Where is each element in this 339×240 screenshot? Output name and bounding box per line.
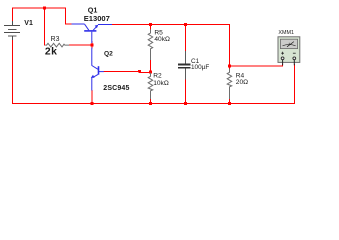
- svg-text:XMM1: XMM1: [278, 30, 294, 36]
- transistor Q2: [92, 48, 104, 91]
- node R2 / ground junction: [149, 102, 152, 105]
- svg-text:2k: 2k: [45, 47, 57, 58]
- pin XMM1 plus: [282, 60, 284, 66]
- wire R4 to XMM1 plus: [230, 65, 284, 67]
- node C1 / ground junction: [184, 102, 187, 105]
- wire R5 bottom: [150, 60, 152, 73]
- wire Q1 collector feed vertical: [65, 8, 67, 25]
- wire R2 bottom: [150, 99, 152, 105]
- node R4 / ground junction: [228, 102, 231, 105]
- svg-text:40kΩ: 40kΩ: [154, 36, 170, 43]
- svg-text:R3: R3: [51, 36, 60, 43]
- node Q1 base / R3 / Q2 collector junction: [91, 44, 94, 47]
- arrow Q1 emitter: [95, 25, 99, 29]
- pin XMM1 minus: [293, 60, 295, 66]
- wire Q2 emitter to ground red part: [91, 90, 93, 104]
- svg-text:V1: V1: [24, 20, 33, 27]
- wire R4 drop: [229, 25, 231, 70]
- node Q2 emitter / ground junction: [90, 102, 93, 105]
- transistor Q1: [72, 24, 113, 43]
- wire output rail: [112, 24, 230, 26]
- node output rail / R5 junction: [149, 23, 152, 26]
- wire top rail: [12, 7, 66, 9]
- node top rail / R3 junction: [43, 7, 46, 10]
- resistor R4: [227, 69, 232, 99]
- wire Q2 base to divider segment 2: [139, 71, 151, 73]
- wire battery bottom: [12, 40, 14, 105]
- wire C1 bottom: [185, 79, 187, 104]
- svg-text:100µF: 100µF: [191, 64, 209, 71]
- wire XMM1 plus drop: [282, 64, 284, 67]
- svg-text:10kΩ: 10kΩ: [153, 80, 169, 87]
- wire Q2 base to divider segment 1: [104, 70, 140, 72]
- node Q2 base wire kink: [138, 70, 141, 73]
- multimeter XMM1: [278, 37, 300, 63]
- resistor R5: [148, 29, 153, 60]
- svg-text:R2: R2: [153, 73, 162, 80]
- wire C1 top: [185, 25, 187, 52]
- wire Q1 base stub red: [91, 41, 93, 49]
- svg-text:2SC945: 2SC945: [103, 85, 129, 92]
- terminal post plus: [281, 57, 284, 60]
- wire battery top: [12, 8, 14, 22]
- wire ground rail: [12, 103, 295, 105]
- wire XMM1 minus to ground: [293, 64, 295, 104]
- terminal minus: [293, 52, 296, 54]
- resistor R3: [45, 43, 69, 47]
- battery V1: [4, 21, 20, 40]
- node R5 / R2 / Q2 base junction: [149, 71, 152, 74]
- wire R5 top stub: [150, 25, 152, 30]
- terminal post minus: [293, 57, 296, 60]
- svg-text:Q2: Q2: [104, 50, 113, 57]
- wire R4 bottom: [229, 99, 231, 105]
- node output rail / C1 junction: [184, 23, 187, 26]
- wire R3 drop: [44, 8, 46, 46]
- resistor R2: [148, 73, 153, 99]
- arrow Q2 emitter: [91, 75, 95, 78]
- svg-text:20Ω: 20Ω: [236, 79, 248, 86]
- node R4 top / XMM1 junction: [228, 65, 231, 68]
- wire Q1 collector feed horizontal: [65, 23, 72, 25]
- svg-text:E13007: E13007: [84, 14, 110, 23]
- capacitor C1: [178, 51, 191, 80]
- wire R3 to Q1 base: [69, 44, 93, 46]
- terminal plus: [281, 52, 284, 55]
